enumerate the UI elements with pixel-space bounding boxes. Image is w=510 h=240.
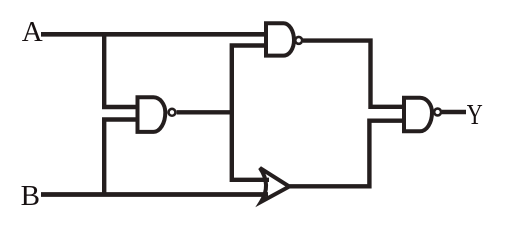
svg-text:B: B bbox=[21, 180, 40, 212]
svg-text:Y: Y bbox=[467, 99, 483, 131]
svg-text:A: A bbox=[22, 16, 43, 48]
